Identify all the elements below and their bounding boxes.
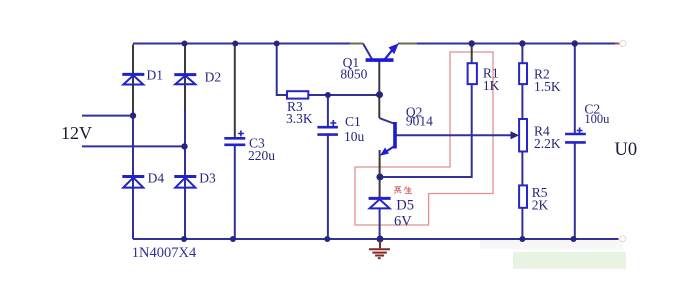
svg-text:2K: 2K: [532, 198, 549, 213]
svg-text:6V: 6V: [394, 214, 412, 230]
svg-text:10u: 10u: [344, 129, 365, 144]
svg-text:D3: D3: [199, 171, 216, 186]
svg-text:1K: 1K: [483, 78, 500, 93]
svg-text:3.3K: 3.3K: [286, 111, 313, 126]
svg-text:100u: 100u: [584, 112, 610, 126]
svg-text:D4: D4: [148, 171, 165, 186]
svg-text:U0: U0: [615, 140, 638, 160]
svg-text:D2: D2: [205, 69, 222, 84]
svg-text:D1: D1: [147, 68, 164, 83]
svg-text:220u: 220u: [248, 148, 275, 163]
svg-text:9014: 9014: [406, 114, 433, 129]
svg-text:1.5K: 1.5K: [534, 79, 561, 94]
svg-text:1N4007X4: 1N4007X4: [132, 245, 197, 261]
svg-text:8050: 8050: [340, 67, 367, 82]
svg-text:2.2K: 2.2K: [534, 136, 561, 151]
svg-text:12V: 12V: [61, 123, 92, 143]
svg-text:D5: D5: [396, 197, 414, 213]
svg-text:C1: C1: [345, 114, 361, 129]
